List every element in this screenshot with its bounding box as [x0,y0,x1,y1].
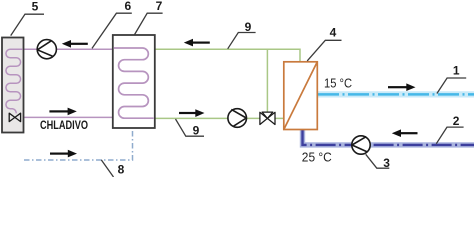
svg-text:9: 9 [245,20,252,34]
wire bottom green pipe [155,117,284,119]
svg-text:5: 5 [32,0,39,14]
plate heat exchanger 4 [284,62,318,130]
wire green branch to valve [266,49,268,113]
three-way valve [260,112,275,124]
coil in exchanger 7 [114,48,154,118]
coil in exchanger 5 [6,49,23,113]
label 9 top leader [228,33,256,49]
svg-text:15 °C: 15 °C [324,77,352,91]
wire bottom purple pipe CHLADIVO [20,116,113,118]
label 7 leader [134,13,162,35]
label 3 leader [366,154,390,168]
pump 3 (blue return line) [352,136,370,154]
label 5 leader [11,14,44,35]
label 2 leader [436,127,463,144]
arrow right above CHLADIVO pipe [49,108,76,116]
svg-text:6: 6 [125,0,132,13]
expansion valve in exchanger 5 [9,113,20,121]
pump 1 (top left) [37,40,56,59]
svg-text:7: 7 [156,0,163,13]
wire blue return pipe band [303,129,474,145]
wire cyan supply pipe band [317,91,474,97]
svg-text:25 °C: 25 °C [302,151,332,165]
arrow left above top purple pipe [62,40,88,48]
label 4 leader [307,40,341,61]
label 1 leader [437,78,466,94]
wire blue return pipe core [303,129,474,145]
svg-text:2: 2 [453,114,460,128]
arrow left above blue pipe [392,129,418,137]
arrow right above bottom green pipe [179,109,205,117]
wire top green pipe [155,49,300,62]
arrow right above cyan pipe [388,83,416,91]
wire dashed condensate pipe [24,128,133,160]
svg-text:CHLADIVO: CHLADIVO [40,118,88,132]
svg-text:3: 3 [383,156,390,170]
pump 2 (circulation, green loop) [228,109,247,128]
svg-text:9: 9 [193,124,200,138]
heat exchanger 7 body [113,35,155,128]
arrow left above top green pipe [184,39,210,47]
svg-text:8: 8 [118,162,125,176]
svg-text:4: 4 [330,26,337,40]
label 8 leader [101,160,113,177]
heat exchanger 5 body [2,38,24,133]
wire top purple pipe [23,48,113,50]
svg-text:1: 1 [453,63,460,77]
arrow right above dashed pipe [50,150,77,158]
label 6 leader [92,13,132,48]
wire cyan supply pipe core [318,93,474,96]
label 9 bottom leader [176,119,205,136]
